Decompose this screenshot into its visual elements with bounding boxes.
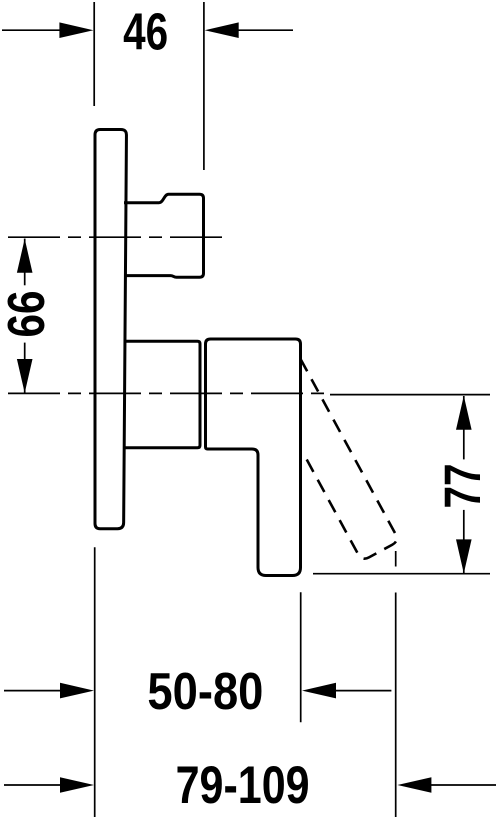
bottom extension line at dashed lever end (395, 593, 397, 817)
dimension 77: dimension line lower segment (463, 510, 465, 573)
wall plate (escutcheon, side view) (95, 130, 126, 529)
dimension 46: left arrowhead (59, 22, 93, 38)
dimension text 66 (rotated) (0, 291, 56, 338)
tick below dashed lever end (395, 551, 397, 567)
valve body (cartridge housing) (124, 341, 200, 447)
dimension 77: up arrowhead (456, 396, 472, 430)
dimension 77: down arrowhead (456, 539, 472, 573)
dimension 46: left dimension line (2, 29, 61, 31)
dimension 79-109: left dimension line (4, 784, 61, 786)
dimension 66: down arrowhead (17, 359, 33, 393)
lever handle (dashed, rotated position) (263, 359, 399, 561)
dimension 79-109: right dimension line (430, 784, 496, 786)
svg-text:77: 77 (434, 464, 491, 509)
extension line at lever bottom (right) (313, 573, 490, 575)
centerline of valve body (dash-dot) (8, 392, 327, 394)
dimension 50-80: right dimension line (335, 690, 391, 692)
dimension 46: right dimension line (237, 29, 293, 31)
svg-text:79-109: 79-109 (176, 756, 310, 815)
dimension 50-80: left arrowhead (60, 683, 94, 699)
dimension 66: up arrowhead (17, 239, 33, 273)
dimension 46: extension line right (203, 2, 205, 170)
dimension 66: dimension line lower segment (24, 343, 26, 394)
dimension text 77 (rotated) (434, 464, 491, 509)
dimension 46: right arrowhead (205, 22, 239, 38)
dimension 46: extension line left (93, 2, 95, 106)
dimension 79-109: right arrowhead (397, 777, 431, 793)
svg-text:46: 46 (123, 4, 168, 62)
centerline of knob (dash-dot) (8, 236, 224, 238)
dimension 66: dimension line upper segment (24, 239, 26, 286)
dimension 77: dimension line upper segment (463, 396, 465, 459)
extension line at lever axis level (right) (330, 394, 490, 396)
diverter knob (upper, side view) (124, 194, 204, 277)
dimension 50-80: right arrowhead (302, 683, 336, 699)
bottom extension line at plate face (94, 547, 96, 817)
svg-text:50-80: 50-80 (147, 663, 263, 721)
bottom extension line at lever front (300, 592, 302, 722)
dimension 50-80: left dimension line (4, 690, 61, 692)
lever handle (solid, vertical position) (206, 339, 301, 576)
dimension 79-109: left arrowhead (60, 777, 94, 793)
svg-text:66: 66 (0, 291, 56, 338)
